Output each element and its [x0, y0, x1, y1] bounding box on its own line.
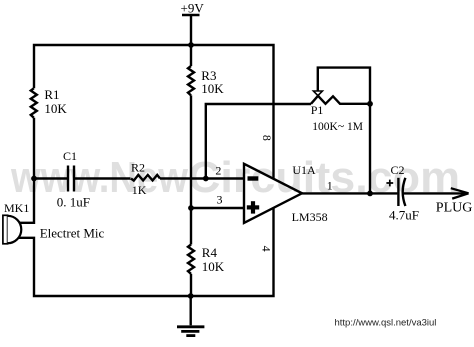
svg-text:U1A: U1A [292, 163, 316, 177]
svg-text:10K: 10K [44, 101, 67, 116]
svg-text:C1: C1 [63, 149, 77, 163]
svg-text:C2: C2 [391, 163, 405, 177]
svg-text:2: 2 [215, 164, 221, 178]
svg-text:10K: 10K [201, 81, 224, 96]
svg-text:0. 1uF: 0. 1uF [57, 194, 90, 209]
svg-text:R2: R2 [131, 160, 145, 174]
svg-text:+9V: +9V [181, 1, 205, 16]
svg-text:Electret Mic: Electret Mic [40, 225, 105, 240]
svg-text:R4: R4 [202, 245, 218, 260]
svg-text:PLUG: PLUG [436, 201, 473, 216]
svg-text:MK1: MK1 [4, 201, 29, 215]
svg-text:1K: 1K [132, 183, 147, 197]
svg-text:P1: P1 [311, 103, 324, 117]
svg-text:4.7uF: 4.7uF [389, 208, 419, 223]
svg-text:4: 4 [259, 246, 273, 252]
svg-text:LM358: LM358 [292, 210, 328, 224]
svg-text:100K~ 1M: 100K~ 1M [312, 121, 363, 133]
svg-text:R1: R1 [44, 87, 59, 102]
svg-text:http://www.qsl.net/va3iul: http://www.qsl.net/va3iul [335, 318, 437, 329]
svg-text:8: 8 [260, 135, 274, 141]
svg-text:10K: 10K [202, 259, 225, 274]
svg-text:3: 3 [217, 193, 223, 207]
svg-text:1: 1 [327, 179, 333, 193]
